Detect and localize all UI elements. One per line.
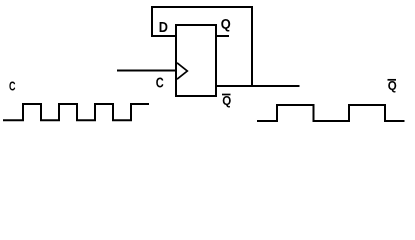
wire: Q output stub [217, 35, 229, 37]
svg-text:Q: Q [221, 16, 231, 32]
D flip-flop U1 body [176, 25, 216, 96]
right output waveform Q-bar [257, 105, 405, 121]
label Q-bar (flip-flop pin) [222, 93, 231, 108]
wire: feedback from Q-bar to D input [152, 7, 252, 87]
svg-text:C: C [9, 79, 16, 94]
svg-text:C: C [156, 75, 164, 91]
wire: clock input [117, 70, 176, 72]
wire: Q-bar output [216, 85, 300, 87]
clock edge-trigger symbol [177, 63, 187, 79]
svg-text:D: D [159, 20, 168, 36]
left clock waveform C [3, 104, 149, 120]
label Q-bar (right waveform) [388, 78, 397, 93]
